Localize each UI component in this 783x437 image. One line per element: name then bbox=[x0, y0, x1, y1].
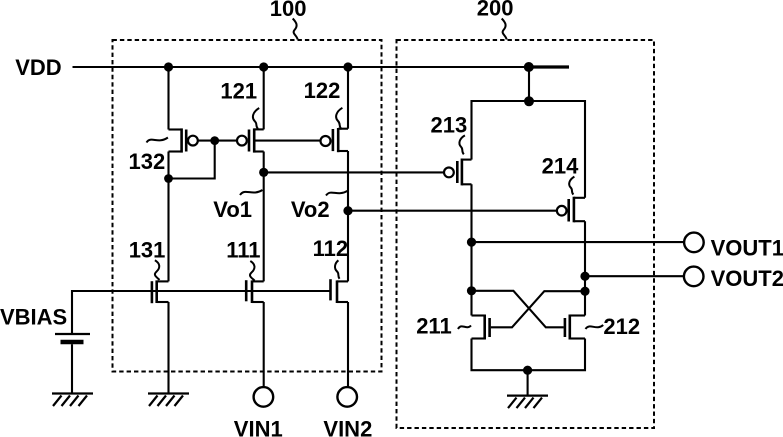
svg-text:VDD: VDD bbox=[15, 55, 61, 80]
svg-text:131: 131 bbox=[129, 238, 166, 263]
svg-text:VIN1: VIN1 bbox=[234, 417, 283, 437]
svg-text:212: 212 bbox=[603, 314, 640, 339]
svg-text:VIN2: VIN2 bbox=[323, 417, 372, 437]
svg-text:214: 214 bbox=[542, 153, 579, 178]
svg-text:VBIAS: VBIAS bbox=[0, 305, 67, 330]
svg-text:100: 100 bbox=[270, 0, 307, 21]
svg-text:200: 200 bbox=[477, 0, 514, 21]
svg-text:121: 121 bbox=[220, 79, 257, 104]
svg-text:122: 122 bbox=[304, 78, 341, 103]
svg-text:Vo1: Vo1 bbox=[213, 197, 252, 222]
svg-text:132: 132 bbox=[129, 149, 166, 174]
svg-text:111: 111 bbox=[226, 238, 260, 263]
svg-text:213: 213 bbox=[431, 112, 468, 137]
svg-text:VOUT1: VOUT1 bbox=[711, 235, 783, 260]
svg-text:211: 211 bbox=[416, 314, 452, 339]
svg-text:VOUT2: VOUT2 bbox=[711, 266, 783, 291]
svg-text:Vo2: Vo2 bbox=[291, 197, 330, 222]
svg-text:112: 112 bbox=[313, 236, 349, 261]
